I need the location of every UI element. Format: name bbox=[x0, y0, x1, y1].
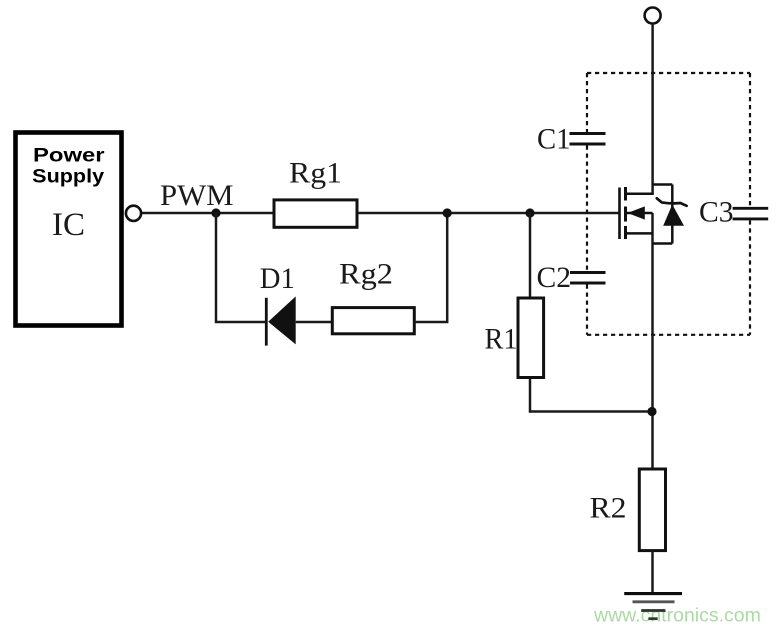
resistor Rg2 bbox=[332, 308, 414, 334]
svg-text:D1: D1 bbox=[260, 262, 295, 295]
svg-text:www.cntronics.com: www.cntronics.com bbox=[593, 605, 761, 627]
wire R2 to ground bbox=[651, 550, 654, 593]
watermark www.cntronics.com bbox=[593, 605, 761, 627]
wire PWM node down to diode branch bbox=[216, 213, 265, 322]
label IC bbox=[52, 207, 85, 243]
terminal circle drain top bbox=[645, 8, 661, 24]
capacitor C3 bbox=[733, 208, 769, 219]
svg-text:PWM: PWM bbox=[160, 179, 234, 212]
wire gate main horizontal bbox=[141, 212, 619, 215]
label C3 bbox=[699, 196, 734, 229]
svg-text:C3: C3 bbox=[699, 196, 734, 229]
node after Rg1 bbox=[443, 208, 452, 217]
resistor R2 bbox=[639, 469, 665, 551]
capacitor C2 bbox=[570, 273, 606, 284]
wire R1 branch down bbox=[530, 213, 652, 412]
label D1 bbox=[260, 262, 295, 295]
resistor R1 bbox=[518, 298, 544, 378]
label Power Supply bbox=[32, 146, 105, 188]
node R1 branch bbox=[525, 208, 534, 217]
label R1 bbox=[485, 323, 518, 356]
power supply IC box bbox=[16, 133, 122, 326]
svg-text:C1: C1 bbox=[537, 123, 571, 156]
svg-text:Power: Power bbox=[33, 146, 105, 167]
diode D1 bbox=[266, 296, 295, 345]
svg-text:R1: R1 bbox=[485, 323, 518, 356]
label Rg1 bbox=[289, 157, 342, 190]
ground bbox=[624, 594, 682, 619]
label C1 bbox=[537, 123, 571, 156]
wire source down through node to R2 bbox=[651, 213, 654, 470]
wire D1 to Rg2 bbox=[296, 321, 332, 324]
label R2 bbox=[590, 492, 627, 525]
svg-text:IC: IC bbox=[52, 207, 85, 243]
node PWM junction bbox=[211, 208, 220, 217]
svg-text:R2: R2 bbox=[590, 492, 627, 525]
svg-text:Rg2: Rg2 bbox=[339, 258, 393, 291]
label C2 bbox=[537, 261, 572, 294]
terminal circle PWM output bbox=[126, 206, 141, 221]
capacitor C1 bbox=[570, 134, 606, 145]
label Rg2 bbox=[339, 258, 393, 291]
svg-text:C2: C2 bbox=[537, 261, 572, 294]
svg-text:Supply: Supply bbox=[32, 167, 104, 188]
body diode of MOSFET bbox=[653, 185, 687, 244]
svg-text:Rg1: Rg1 bbox=[289, 157, 342, 190]
wire drain from terminal down bbox=[651, 24, 654, 196]
transistor Q1 MOSFET bbox=[620, 187, 653, 239]
node source R1 junction bbox=[647, 407, 656, 416]
label PWM bbox=[160, 179, 234, 212]
dashed box MOSFET package bbox=[587, 73, 750, 335]
resistor Rg1 bbox=[274, 200, 357, 227]
wire Rg2 up to node bbox=[414, 214, 447, 322]
